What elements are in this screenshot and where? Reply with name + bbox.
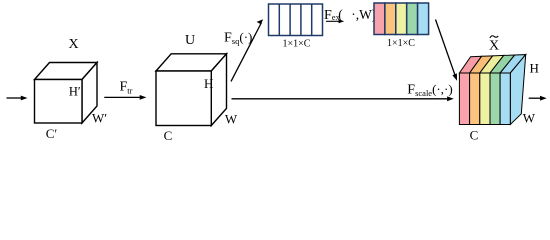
right face <box>510 55 525 125</box>
svg-text:C′: C′ <box>46 126 58 141</box>
scaled tensor X~ cube (colored slabs) <box>459 55 525 125</box>
svg-text:W: W <box>523 110 536 125</box>
F_sq arrow <box>231 19 263 81</box>
squeeze vector (white striped rect) <box>269 4 323 36</box>
F_ex arrow <box>326 19 344 23</box>
svg-text:X: X <box>489 38 499 53</box>
svg-text:H: H <box>530 60 539 75</box>
svg-text:H′: H′ <box>69 84 81 98</box>
arrow excitation to scaled tensor <box>436 20 458 81</box>
svg-text:1×1×C: 1×1×C <box>283 38 311 49</box>
svg-text:C: C <box>164 128 173 143</box>
svg-text:1×1×C: 1×1×C <box>387 38 415 49</box>
tensor X cube <box>35 63 98 124</box>
svg-text:C: C <box>470 128 479 143</box>
front faces <box>459 73 469 125</box>
svg-text:X: X <box>68 37 78 52</box>
tensor U cube <box>156 54 227 126</box>
F_scale arrow <box>232 96 454 101</box>
top faces <box>459 56 481 73</box>
excitation vector (colored rect) <box>374 3 429 35</box>
svg-text:W′: W′ <box>92 111 107 126</box>
svg-text:H: H <box>204 76 213 91</box>
output arrow <box>529 96 547 101</box>
F_tr arrow <box>104 95 146 100</box>
svg-text:W: W <box>225 111 238 126</box>
svg-text:U: U <box>185 33 195 48</box>
input arrow <box>7 96 28 101</box>
